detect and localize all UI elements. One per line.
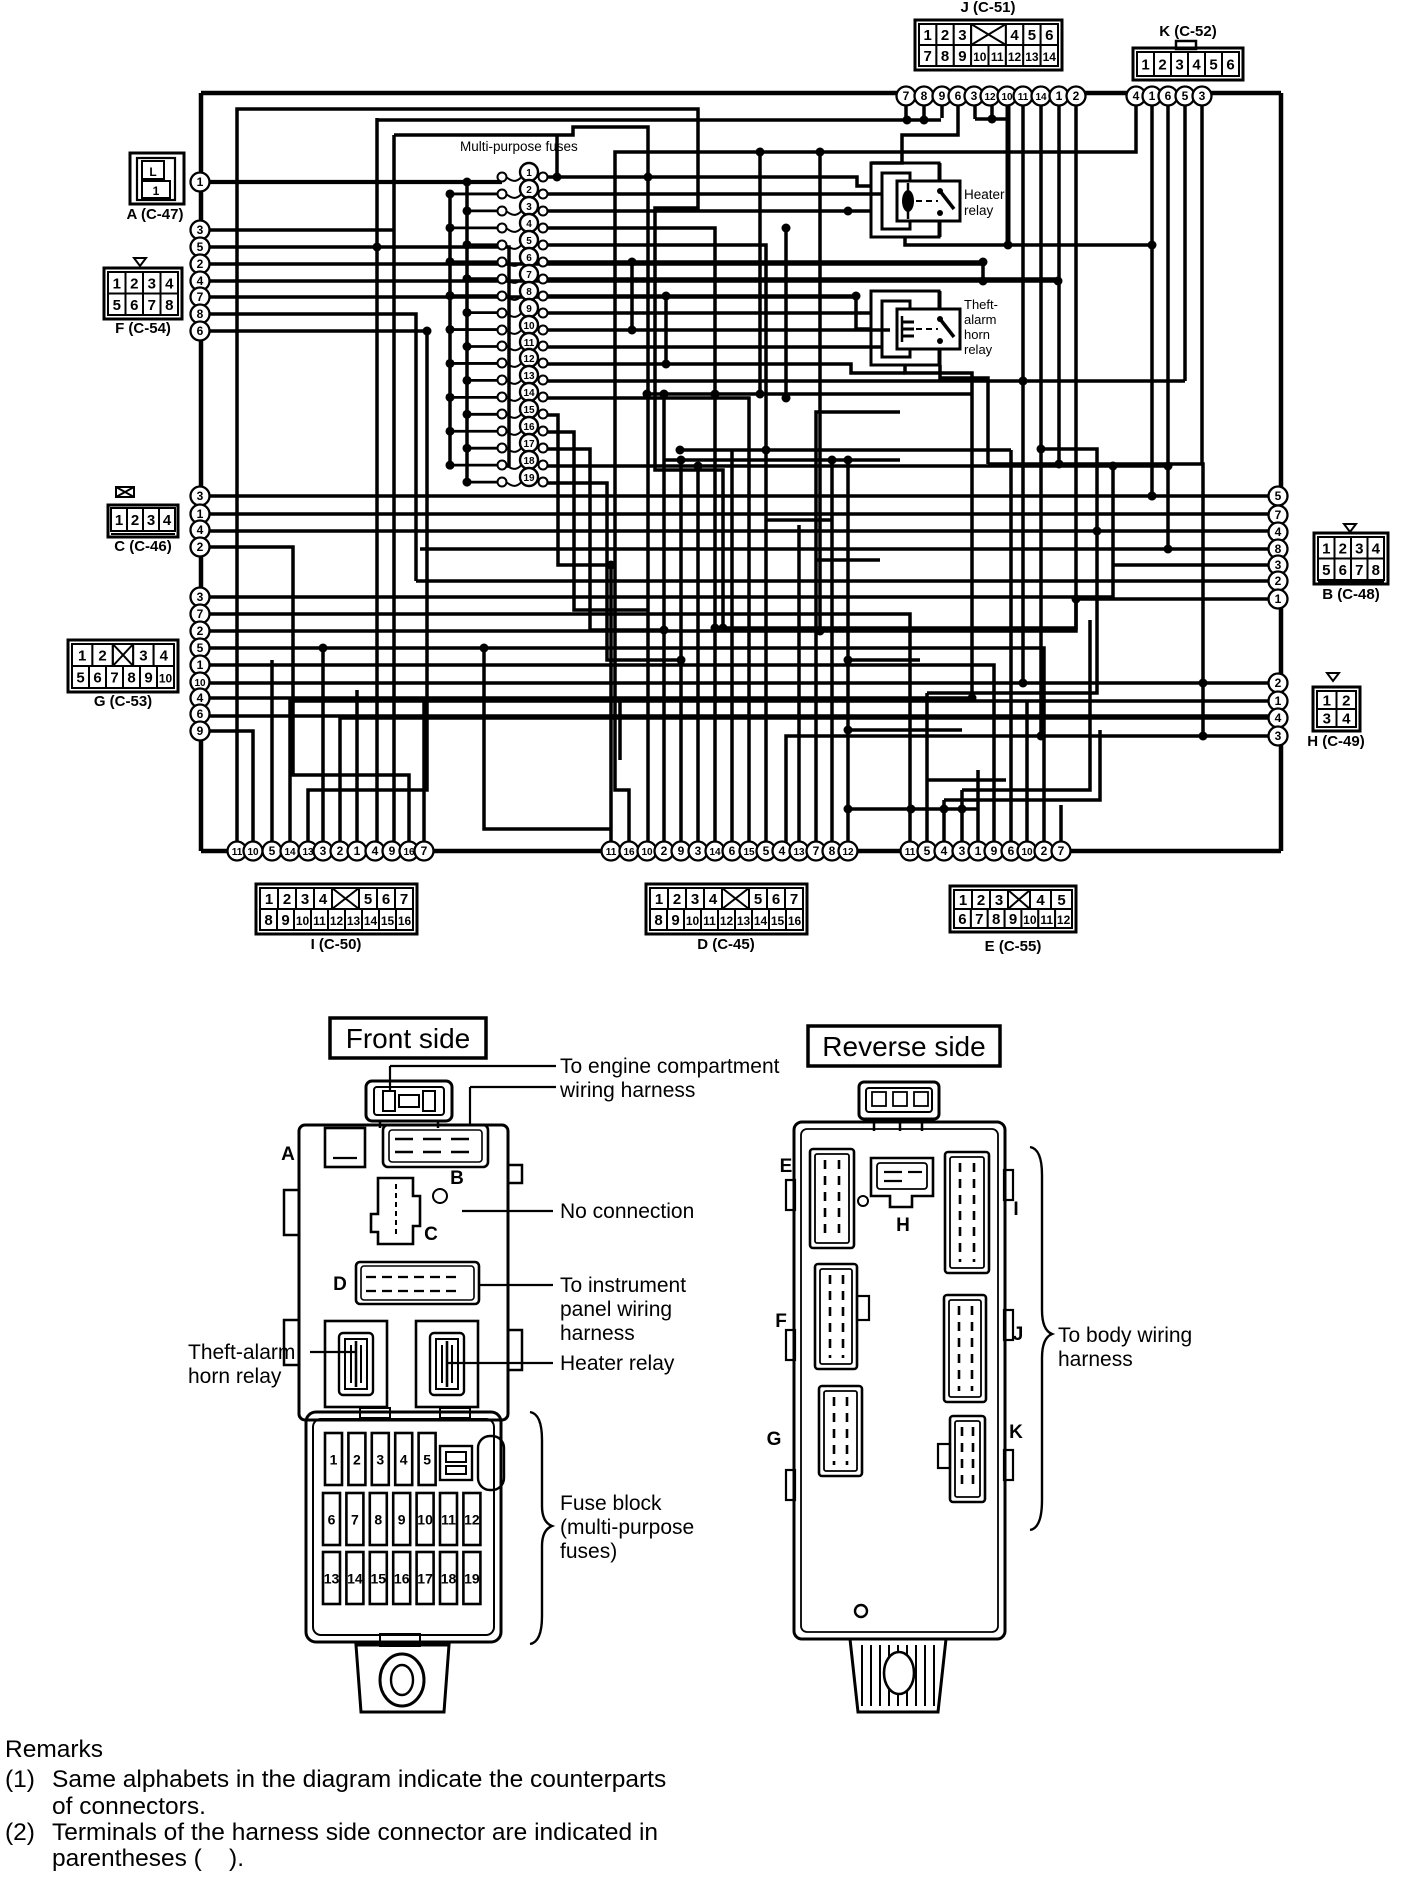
connector K reverse view xyxy=(938,1416,1023,1502)
svg-text:5: 5 xyxy=(763,844,770,858)
wire G5 xyxy=(200,648,1044,842)
fuse block multi-purpose fuses 1-19 xyxy=(498,163,548,487)
wire T1 drop xyxy=(1057,105,1061,464)
node E pin 7 xyxy=(1052,842,1071,861)
svg-text:I (C-50): I (C-50) xyxy=(311,936,362,953)
svg-text:4: 4 xyxy=(1133,89,1140,103)
svg-text:2: 2 xyxy=(130,275,138,292)
connector E reverse view xyxy=(780,1149,854,1248)
label Theft-alarm horn relay xyxy=(964,297,998,357)
svg-text:13: 13 xyxy=(793,847,805,858)
node G pin 1 xyxy=(191,656,210,675)
svg-text:6: 6 xyxy=(1226,57,1234,74)
node D pin 4 xyxy=(773,842,792,861)
svg-text:3: 3 xyxy=(1323,711,1331,728)
svg-text:D: D xyxy=(333,1274,347,1295)
wire theft relay out left xyxy=(698,365,972,842)
svg-text:14: 14 xyxy=(347,1571,363,1587)
wire B8 xyxy=(420,547,1269,551)
wire E bus 809 xyxy=(848,807,978,811)
reverse small circle xyxy=(855,1605,867,1617)
svg-text:F: F xyxy=(775,1311,787,1332)
svg-text:4: 4 xyxy=(709,891,718,908)
node F pin 2 xyxy=(191,255,210,274)
wire I3 riser xyxy=(321,648,325,842)
connector E (C-55) pin box xyxy=(950,886,1076,932)
wire fuse1 out xyxy=(547,177,871,186)
node E pin 3 xyxy=(953,842,972,861)
svg-text:Terminals of the harness side: Terminals of the harness side connector … xyxy=(52,1819,658,1846)
svg-text:2: 2 xyxy=(1073,89,1080,103)
wire T11 drop xyxy=(1021,105,1025,683)
node C pin 3 xyxy=(191,487,210,506)
relay Heater relay xyxy=(871,163,960,237)
wire T2 drop xyxy=(715,105,1076,842)
svg-text:6: 6 xyxy=(1165,89,1172,103)
svg-text:9: 9 xyxy=(1009,911,1017,928)
svg-text:4: 4 xyxy=(319,891,328,908)
label H (C-49) xyxy=(1307,733,1365,750)
wire D2 riser xyxy=(662,394,666,842)
node B pin 3 xyxy=(1269,556,1288,575)
wire feed fuse 14 xyxy=(450,396,500,399)
wire D12 riser xyxy=(846,460,850,842)
svg-text:5: 5 xyxy=(1028,27,1036,44)
wire B3 riser xyxy=(1111,466,1115,565)
svg-text:relay: relay xyxy=(964,342,993,357)
connector H reverse view xyxy=(858,1158,933,1236)
wire I5 riser xyxy=(270,660,274,842)
node J pin 1 xyxy=(1050,87,1069,106)
connector K (C-52) pin box xyxy=(1133,41,1243,80)
node I pin 10 xyxy=(244,842,263,861)
node I pin 5 xyxy=(263,842,282,861)
svg-text:4: 4 xyxy=(1010,27,1019,44)
wire C1 B7 xyxy=(200,512,1269,516)
wire mid v698 xyxy=(696,466,700,700)
label G (C-53) xyxy=(94,693,152,710)
connector C front view xyxy=(371,1178,447,1245)
node E pin 4 xyxy=(935,842,954,861)
wire G3 B3 xyxy=(198,563,202,567)
svg-text:8: 8 xyxy=(1275,542,1282,556)
svg-text:12: 12 xyxy=(984,92,996,103)
wire E1 riser xyxy=(976,770,980,842)
svg-text:6: 6 xyxy=(382,891,390,908)
svg-text:1: 1 xyxy=(197,175,204,189)
node F pin 5 xyxy=(191,238,210,257)
svg-text:6: 6 xyxy=(526,253,532,264)
svg-text:1: 1 xyxy=(354,844,361,858)
svg-text:1: 1 xyxy=(153,184,160,198)
node G pin 7 xyxy=(191,605,210,624)
svg-text:1: 1 xyxy=(1149,89,1156,103)
svg-text:2: 2 xyxy=(1342,693,1350,710)
svg-text:11: 11 xyxy=(1018,92,1029,103)
node C pin 4 xyxy=(191,521,210,540)
label E (C-55) xyxy=(985,938,1042,955)
wire B3 xyxy=(1113,563,1269,567)
svg-text:13: 13 xyxy=(302,847,314,858)
svg-text:13: 13 xyxy=(737,914,751,928)
svg-text:10: 10 xyxy=(686,914,700,928)
wire D9 riser xyxy=(679,460,683,842)
svg-text:8: 8 xyxy=(654,912,662,929)
svg-text:14: 14 xyxy=(364,914,378,928)
label Front side title box xyxy=(330,1018,486,1058)
wire K6 drop xyxy=(1166,105,1170,549)
wire fuse6 branch xyxy=(630,262,634,330)
wire fuse1 up xyxy=(555,135,559,177)
wire K5 drop xyxy=(1183,105,1187,381)
node K pin 4 xyxy=(1127,87,1146,106)
svg-text:16: 16 xyxy=(403,847,415,858)
node K pin 1 xyxy=(1143,87,1162,106)
reverse-side fuse box body xyxy=(786,1082,1013,1639)
svg-text:8: 8 xyxy=(127,670,135,687)
svg-text:3: 3 xyxy=(376,1452,384,1468)
node B pin 5 xyxy=(1269,487,1288,506)
svg-text:Multi-purpose fuses: Multi-purpose fuses xyxy=(460,139,578,154)
svg-text:10: 10 xyxy=(247,847,259,858)
wire G9 xyxy=(200,731,253,842)
connector D (C-45) pin box xyxy=(646,884,807,934)
wire D8 riser xyxy=(830,460,834,842)
wire fuse feed bus V2 xyxy=(448,194,452,466)
wire feed fuse 5 xyxy=(467,243,500,246)
svg-text:6: 6 xyxy=(955,89,962,103)
svg-text:12: 12 xyxy=(720,914,734,928)
svg-text:14: 14 xyxy=(1035,92,1047,103)
label Reverse side title box xyxy=(808,1026,1000,1066)
svg-text:(multi-purpose: (multi-purpose xyxy=(560,1516,694,1539)
wire B4 down chain xyxy=(927,531,1097,693)
svg-text:10: 10 xyxy=(296,914,310,928)
wire mid h394 xyxy=(648,392,972,396)
node B pin 1 xyxy=(1269,590,1288,609)
svg-text:4: 4 xyxy=(1036,892,1045,909)
svg-text:fuses): fuses) xyxy=(560,1540,617,1563)
svg-text:8: 8 xyxy=(264,912,272,929)
svg-text:6: 6 xyxy=(197,324,204,338)
wire K3 drop xyxy=(1200,105,1204,464)
node E pin 1 xyxy=(969,842,988,861)
node K pin 5 xyxy=(1176,87,1195,106)
svg-text:3: 3 xyxy=(1355,540,1363,557)
svg-text:12: 12 xyxy=(330,914,344,928)
svg-text:17: 17 xyxy=(417,1571,433,1587)
svg-text:4: 4 xyxy=(779,844,786,858)
wire feed fuse 18 xyxy=(450,464,500,467)
svg-text:2: 2 xyxy=(673,891,681,908)
wire relay heater pin tr xyxy=(939,163,942,181)
svg-text:1: 1 xyxy=(1322,540,1330,557)
wire feed fuse 8 xyxy=(450,294,500,297)
svg-text:14: 14 xyxy=(754,914,768,928)
svg-text:10: 10 xyxy=(194,678,206,689)
wire K4 drop xyxy=(615,105,1136,842)
wire mid h660 xyxy=(848,658,920,662)
label C (C-46) xyxy=(114,538,172,555)
node J pin 14 xyxy=(1032,87,1051,106)
svg-text:6: 6 xyxy=(1045,27,1053,44)
svg-text:11: 11 xyxy=(232,847,243,858)
svg-text:15: 15 xyxy=(381,914,395,928)
svg-text:J (C-51): J (C-51) xyxy=(960,0,1015,16)
wire B1 xyxy=(1076,597,1269,601)
node G pin 3 xyxy=(191,588,210,607)
wire feed fuse 17 xyxy=(467,447,500,450)
wire fuse5 out xyxy=(547,245,766,842)
wire T7 stub xyxy=(904,105,908,118)
node F pin 8 xyxy=(191,305,210,324)
svg-text:5: 5 xyxy=(197,240,204,254)
svg-text:10: 10 xyxy=(523,321,535,332)
svg-text:8: 8 xyxy=(829,844,836,858)
node G pin 5 xyxy=(191,639,210,658)
svg-text:1: 1 xyxy=(959,892,967,909)
svg-text:8: 8 xyxy=(526,287,532,298)
svg-text:7: 7 xyxy=(813,844,820,858)
wire feed fuse 12 xyxy=(450,362,500,365)
node E pin 11 xyxy=(901,842,920,861)
svg-text:13: 13 xyxy=(523,371,535,382)
svg-text:16: 16 xyxy=(394,1571,410,1587)
node D pin 2 xyxy=(655,842,674,861)
svg-text:2: 2 xyxy=(1275,676,1282,690)
svg-text:Heater relay: Heater relay xyxy=(560,1352,675,1375)
wire fuse14 out xyxy=(547,398,749,842)
svg-text:7: 7 xyxy=(924,48,932,65)
wire feed fuse 7 xyxy=(467,277,500,280)
svg-text:11: 11 xyxy=(441,1512,456,1528)
svg-text:11: 11 xyxy=(905,847,916,858)
svg-text:8: 8 xyxy=(197,307,204,321)
svg-text:1: 1 xyxy=(975,844,982,858)
wire F5 xyxy=(200,247,509,466)
svg-text:5: 5 xyxy=(1057,892,1065,909)
callout to engine compartment wiring harness xyxy=(390,1055,780,1125)
svg-text:13: 13 xyxy=(1025,50,1039,64)
node H pin 4 xyxy=(1269,709,1288,728)
node E pin 6 xyxy=(1002,842,1021,861)
wire G7 xyxy=(200,614,910,842)
wire frame left bus xyxy=(199,93,204,851)
wire G6 H4 xyxy=(200,714,1269,718)
svg-text:J: J xyxy=(1013,1324,1024,1345)
node K pin 3 xyxy=(1193,87,1212,106)
wire vertical x394 xyxy=(392,135,396,851)
wire bus 3-12-10 xyxy=(975,117,1008,121)
node D pin 5 xyxy=(757,842,776,861)
svg-text:11: 11 xyxy=(991,50,1004,64)
relay Theft-alarm horn relay xyxy=(871,291,960,365)
wire F2 xyxy=(200,264,983,281)
wire G2 xyxy=(200,599,1076,631)
connector G (C-53) pin box xyxy=(68,640,178,692)
svg-text:5: 5 xyxy=(113,297,121,314)
remarks text xyxy=(5,1736,666,1872)
wire feed fuse 19 xyxy=(467,481,500,484)
svg-text:1: 1 xyxy=(1275,694,1282,708)
fuse block front view xyxy=(306,1408,504,1646)
svg-text:L: L xyxy=(149,165,156,179)
node D pin 6 xyxy=(723,842,742,861)
wire E10 riser xyxy=(1025,700,1029,842)
node C pin 1 xyxy=(191,505,210,524)
connector B (C-48) pin box xyxy=(1314,524,1388,584)
svg-text:1: 1 xyxy=(526,168,532,179)
wire feed fuse 15 xyxy=(467,413,500,416)
connector I (C-50) pin box xyxy=(256,884,417,934)
wire fuse2 out xyxy=(547,192,882,196)
wire fuse4 out xyxy=(547,228,715,628)
wire fuse9 out xyxy=(547,311,871,315)
node J pin 9 xyxy=(933,87,952,106)
callout theft-alarm horn relay front xyxy=(188,1341,356,1388)
wire mid v786 xyxy=(784,228,788,398)
svg-text:2: 2 xyxy=(131,512,139,529)
svg-text:7: 7 xyxy=(197,290,204,304)
callout heater relay front xyxy=(448,1352,675,1375)
svg-text:18: 18 xyxy=(441,1571,457,1587)
wire mid h760 xyxy=(620,700,647,760)
svg-text:1: 1 xyxy=(1323,693,1331,710)
svg-text:3: 3 xyxy=(691,891,699,908)
wire fuse10 out xyxy=(547,328,890,332)
wire F3 xyxy=(200,228,394,232)
node B pin 7 xyxy=(1269,506,1288,525)
svg-text:2: 2 xyxy=(98,648,106,665)
connector F reverse view xyxy=(775,1264,869,1369)
svg-text:2: 2 xyxy=(353,1452,361,1468)
svg-text:13: 13 xyxy=(347,914,361,928)
node D pin 13 xyxy=(790,842,809,861)
svg-text:Front side: Front side xyxy=(346,1023,471,1054)
svg-text:3: 3 xyxy=(959,844,966,858)
svg-text:9: 9 xyxy=(991,844,998,858)
svg-text:7: 7 xyxy=(1355,562,1363,579)
label K (C-52) xyxy=(1159,23,1217,40)
svg-text:A: A xyxy=(281,1144,295,1165)
svg-text:3: 3 xyxy=(1275,729,1282,743)
svg-text:6: 6 xyxy=(729,844,736,858)
node J pin 11 xyxy=(1014,87,1033,106)
svg-text:of connectors.: of connectors. xyxy=(52,1793,206,1820)
node I pin 14 xyxy=(281,842,300,861)
wire G10 H2 xyxy=(200,681,1269,685)
svg-text:9: 9 xyxy=(958,48,966,65)
svg-text:3: 3 xyxy=(139,648,147,665)
label I (C-50) xyxy=(311,936,362,953)
svg-text:Theft-alarm: Theft-alarm xyxy=(188,1341,295,1364)
svg-text:B (C-48): B (C-48) xyxy=(1322,586,1380,603)
node B pin 2 xyxy=(1269,572,1288,591)
wire mid h680 xyxy=(816,558,880,562)
wire B2 xyxy=(416,579,1269,583)
wire fuse11 out xyxy=(547,345,882,349)
wire fuse13 out xyxy=(547,379,1185,383)
front-side fuse box body xyxy=(284,1081,522,1420)
wire feed fuse 6 xyxy=(450,260,500,263)
svg-text:1: 1 xyxy=(1056,89,1063,103)
svg-text:D (C-45): D (C-45) xyxy=(697,936,755,953)
svg-text:19: 19 xyxy=(464,1571,480,1587)
svg-text:14: 14 xyxy=(284,847,296,858)
wire frame top bus xyxy=(201,91,1281,96)
wire E3 riser xyxy=(960,790,964,842)
svg-text:5: 5 xyxy=(364,891,372,908)
wire D7b riser xyxy=(816,412,900,842)
svg-text:9: 9 xyxy=(678,844,685,858)
svg-text:9: 9 xyxy=(939,89,946,103)
wire T12 stub xyxy=(990,105,994,119)
svg-text:3: 3 xyxy=(526,202,532,213)
svg-text:3: 3 xyxy=(958,27,966,44)
svg-text:3: 3 xyxy=(320,844,327,858)
wire H4 xyxy=(340,718,1269,842)
svg-text:Theft-: Theft- xyxy=(964,297,998,312)
wire fuse3 out xyxy=(547,209,871,213)
svg-text:8: 8 xyxy=(374,1512,382,1528)
svg-text:8: 8 xyxy=(921,89,928,103)
wire mid h450 xyxy=(680,448,1011,452)
node G pin 2 xyxy=(191,622,210,641)
svg-text:3: 3 xyxy=(147,512,155,529)
svg-text:4: 4 xyxy=(400,1452,408,1468)
svg-text:3: 3 xyxy=(971,89,978,103)
wire E6 riser xyxy=(1009,450,1013,842)
svg-text:2: 2 xyxy=(977,892,985,909)
svg-text:(2): (2) xyxy=(5,1819,35,1846)
node B pin 8 xyxy=(1269,540,1288,559)
node E pin 9 xyxy=(985,842,1004,861)
connector D front view xyxy=(333,1262,479,1304)
svg-text:H (C-49): H (C-49) xyxy=(1307,733,1365,750)
node F pin 6 xyxy=(191,322,210,341)
connector B front view xyxy=(383,1125,488,1189)
svg-text:A (C-47): A (C-47) xyxy=(127,206,184,223)
node I pin 3 xyxy=(314,842,333,861)
svg-text:8: 8 xyxy=(992,911,1000,928)
node H pin 3 xyxy=(1269,727,1288,746)
svg-text:17: 17 xyxy=(523,439,535,450)
wire feed fuse 2 xyxy=(450,193,500,196)
wire feed fuse 11 xyxy=(467,345,500,348)
wire fuse19 out xyxy=(547,483,681,660)
svg-text:10: 10 xyxy=(417,1512,433,1528)
svg-text:11: 11 xyxy=(313,914,326,928)
svg-text:To engine compartment: To engine compartment xyxy=(560,1055,780,1078)
connector I reverse view xyxy=(945,1152,1019,1273)
wire I11 long riser xyxy=(237,109,723,842)
node D pin 12 xyxy=(839,842,858,861)
svg-text:3: 3 xyxy=(301,891,309,908)
svg-text:H: H xyxy=(896,1215,910,1236)
svg-text:G (C-53): G (C-53) xyxy=(94,693,152,710)
wire T6 drop xyxy=(871,105,958,163)
wire T10 drop thick xyxy=(1006,105,1011,245)
wire T8 stub xyxy=(922,105,926,118)
svg-text:9: 9 xyxy=(526,304,532,315)
svg-text:2: 2 xyxy=(1158,57,1166,74)
svg-text:I: I xyxy=(1013,1199,1018,1220)
node J pin 12 xyxy=(981,87,1000,106)
svg-text:2: 2 xyxy=(197,540,204,554)
svg-text:G: G xyxy=(767,1429,782,1450)
svg-text:7: 7 xyxy=(1058,844,1065,858)
svg-text:1: 1 xyxy=(655,891,663,908)
